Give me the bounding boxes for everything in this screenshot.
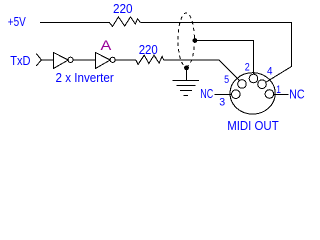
- svg-text:220: 220: [113, 1, 133, 16]
- svg-text:3: 3: [219, 97, 225, 109]
- svg-text:MIDI OUT: MIDI OUT: [227, 118, 279, 133]
- svg-text:220: 220: [139, 42, 158, 57]
- svg-text:2: 2: [245, 62, 250, 74]
- svg-text:NC: NC: [289, 86, 305, 101]
- svg-text:5: 5: [224, 74, 229, 86]
- svg-text:TxD: TxD: [10, 53, 30, 68]
- svg-text:NC: NC: [200, 86, 213, 101]
- svg-text:A: A: [101, 38, 112, 53]
- svg-text:1: 1: [276, 84, 281, 96]
- svg-text:+5V: +5V: [8, 14, 26, 29]
- svg-text:2 x Inverter: 2 x Inverter: [56, 70, 115, 85]
- svg-text:4: 4: [267, 66, 273, 78]
